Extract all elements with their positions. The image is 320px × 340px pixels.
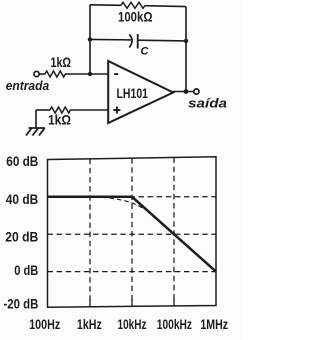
wire: capacitor branch left: [90, 38, 131, 41]
junction: feedback left / capacitor: [88, 37, 92, 41]
svg-text:-20 dB: -20 dB: [4, 296, 39, 312]
svg-text:C: C: [141, 46, 150, 58]
svg-text:10kHz: 10kHz: [118, 316, 147, 332]
op-amp U1 LH101 triangle: [108, 61, 173, 123]
resistor R2 100k zigzag: [121, 2, 145, 8]
wire: capacitor branch right: [138, 39, 186, 42]
gridline 10kHz dashed: [131, 158, 133, 300]
wire: feedback left vertical: [89, 5, 91, 74]
svg-text:100kHz: 100kHz: [157, 316, 192, 332]
pin marker plus: [113, 107, 120, 114]
svg-text:saída: saída: [188, 96, 227, 111]
svg-text:40 dB: 40 dB: [6, 191, 39, 207]
svg-text:100kΩ: 100kΩ: [118, 9, 153, 25]
bode asymptote solid curve: [48, 197, 217, 272]
svg-text:1MHz: 1MHz: [200, 316, 228, 332]
junction: feedback right / capacitor: [184, 39, 188, 43]
gridline 1kHz dashed: [89, 159, 91, 300]
svg-text:1kHz: 1kHz: [77, 316, 102, 332]
resistor R3 1k zigzag: [50, 107, 70, 113]
actual response dashed curve: [102, 197, 152, 214]
axis tick 100kHz: [173, 299, 175, 307]
axis tick 1kHz: [89, 299, 91, 307]
wire: R1 to inverting input: [65, 73, 108, 75]
wire: feedback top right segment: [145, 5, 186, 8]
junction: inverting input node: [88, 72, 92, 76]
ground symbol: [26, 128, 45, 136]
capacitor C curved plate: [129, 35, 132, 48]
wire: R3 to non-inverting input: [70, 109, 108, 111]
wire: ground vertical stub: [35, 110, 37, 128]
svg-text:0 dB: 0 dB: [14, 262, 38, 278]
gridline 20 dB dashed: [48, 233, 217, 235]
wire: ground to R3: [36, 109, 50, 111]
capacitor C straight plate: [137, 34, 139, 49]
gridline 0 dB dashed: [48, 271, 217, 273]
input terminal (entrada): [34, 71, 39, 76]
wire: input to R1: [39, 73, 45, 75]
junction: output / feedback: [184, 89, 189, 94]
svg-text:20 dB: 20 dB: [5, 229, 38, 245]
svg-text:1kΩ: 1kΩ: [48, 112, 71, 128]
svg-text:LH101: LH101: [117, 85, 149, 101]
wire: feedback right vertical: [185, 7, 187, 92]
wire: output: [173, 91, 194, 93]
resistor R1 1k zigzag: [45, 71, 65, 77]
gridline 40 dB dashed: [48, 196, 217, 198]
svg-text:100Hz: 100Hz: [29, 316, 60, 332]
axis tick 10kHz: [131, 299, 133, 307]
svg-text:1kΩ: 1kΩ: [51, 54, 72, 70]
svg-text:entrada: entrada: [6, 78, 50, 93]
graph axes box: [48, 157, 217, 307]
pin marker minus: [114, 73, 118, 75]
output terminal (saída): [194, 89, 199, 94]
svg-text:60 dB: 60 dB: [6, 153, 38, 169]
wire: feedback top left segment: [90, 4, 121, 7]
gridline 100kHz dashed: [173, 158, 175, 301]
